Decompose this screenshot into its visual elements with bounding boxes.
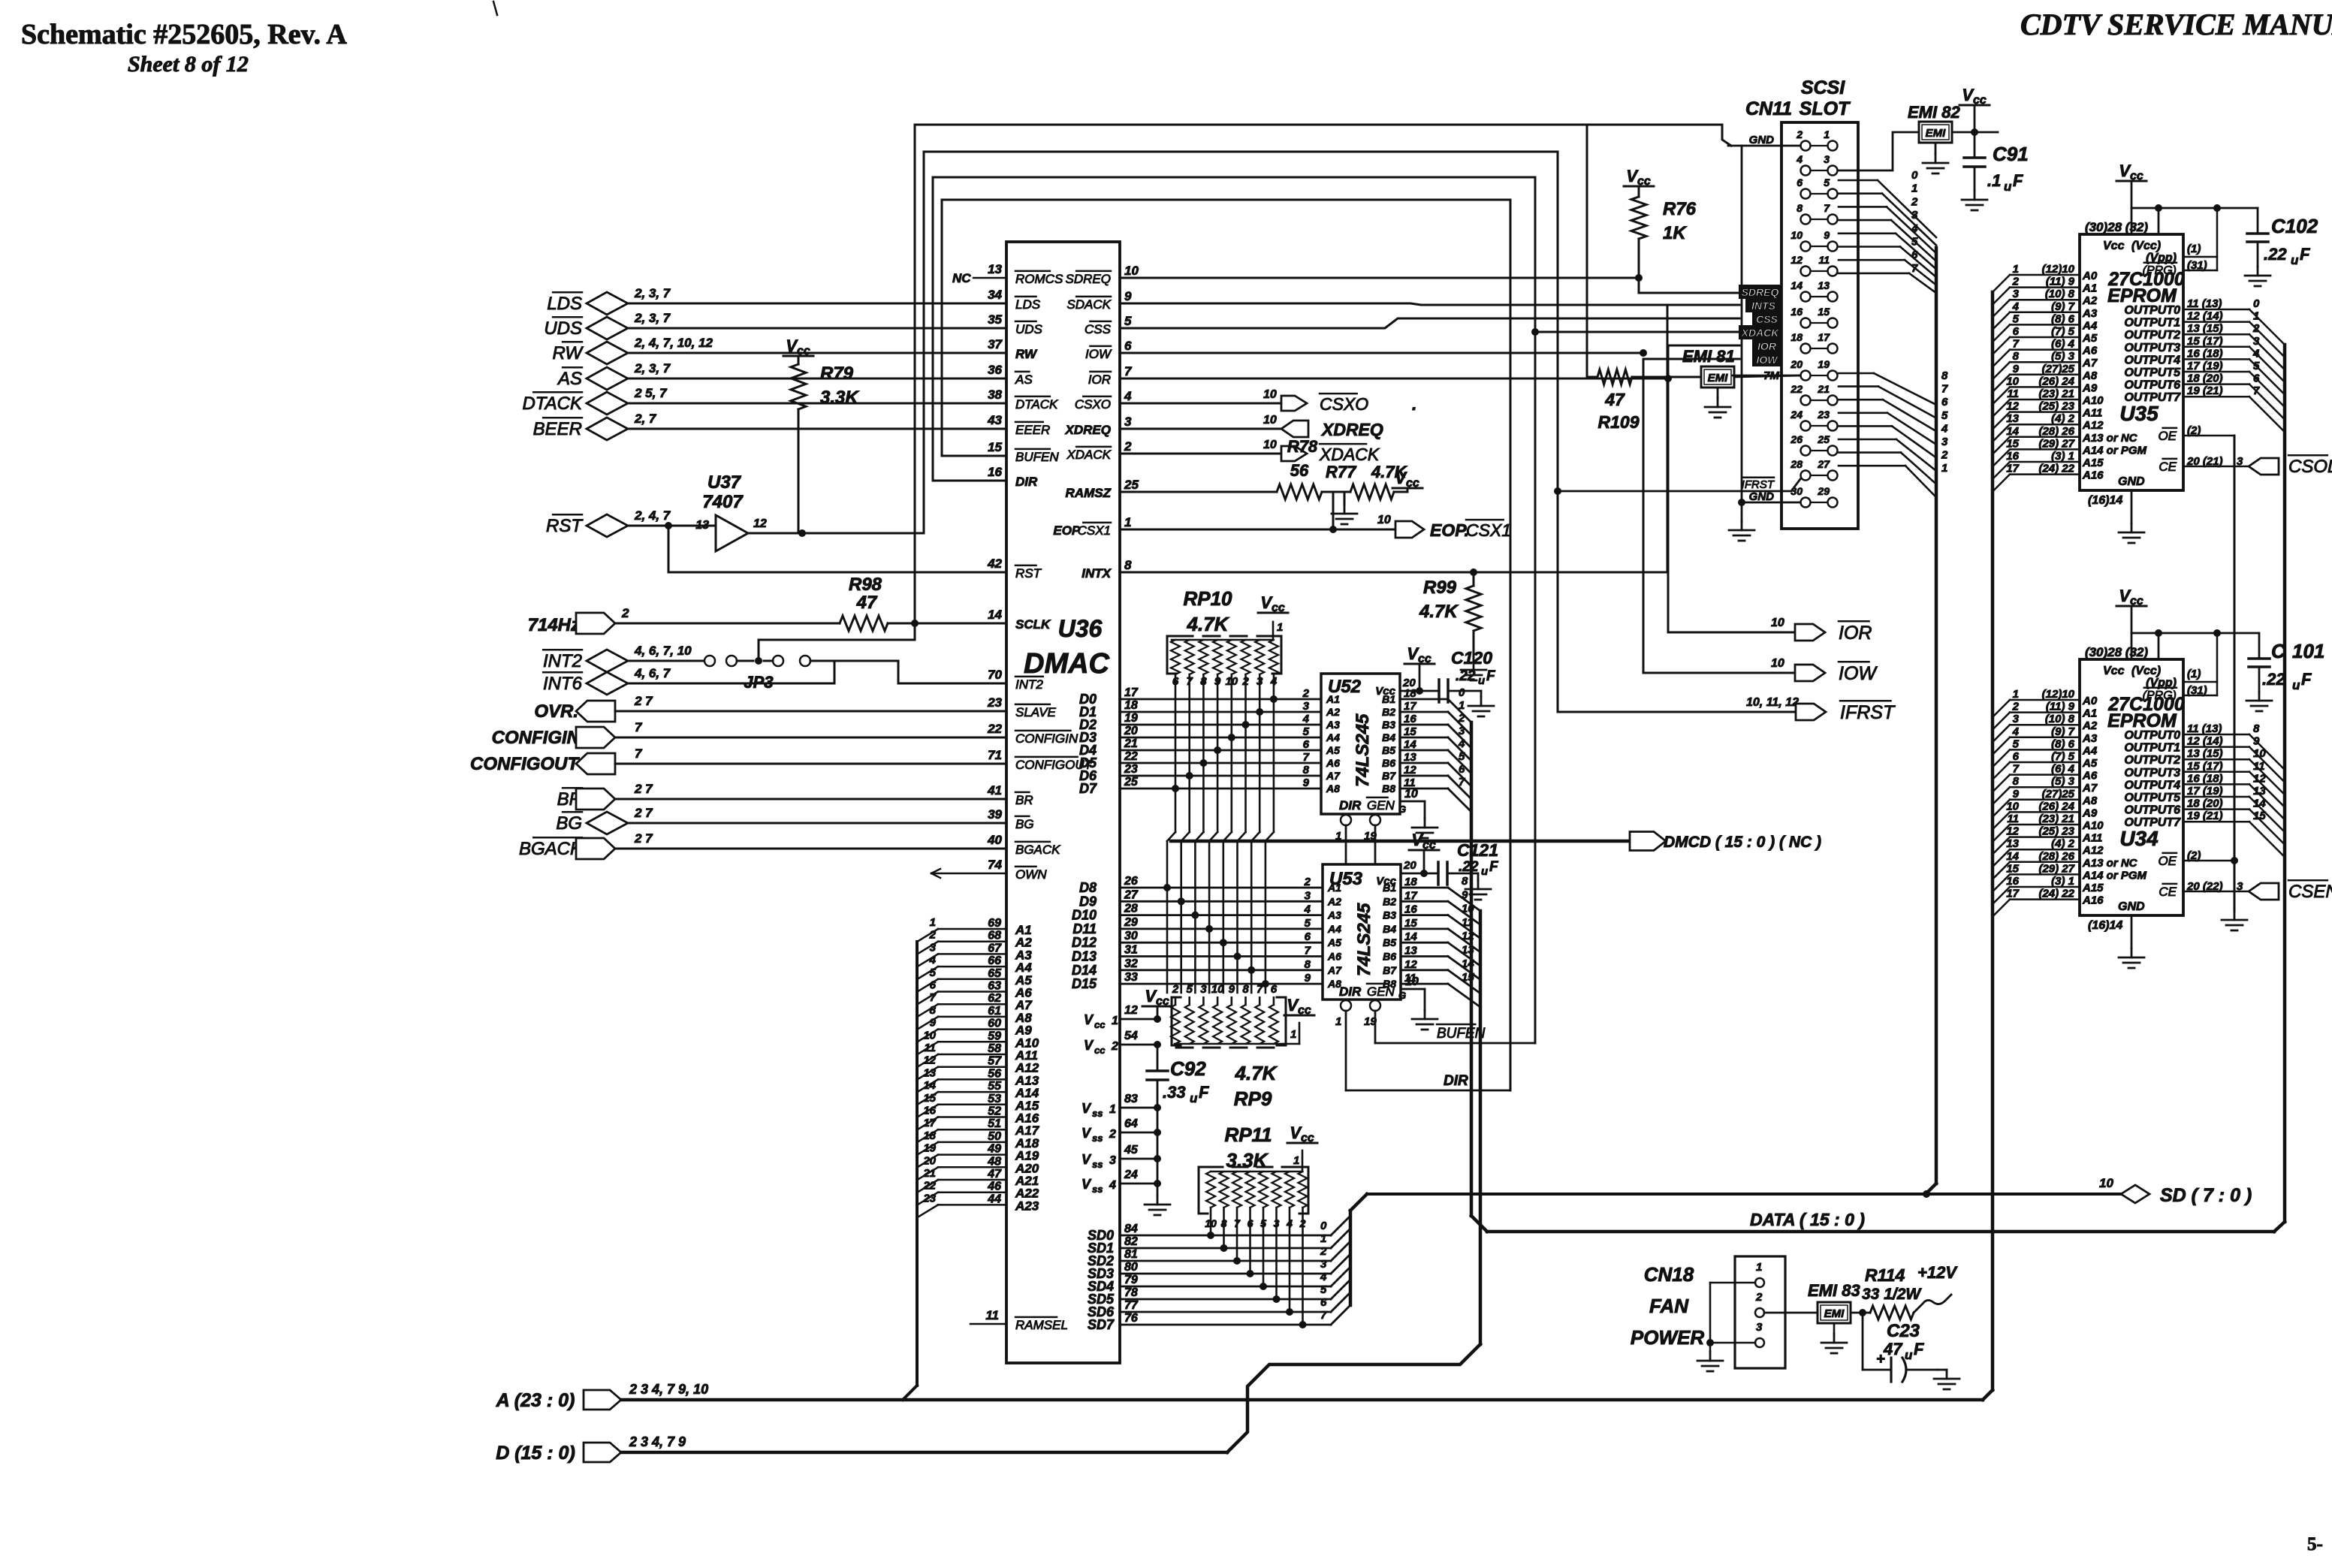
svg-text:14: 14 bbox=[923, 1079, 936, 1092]
EMI 82 ground bbox=[1935, 143, 1937, 154]
svg-text:4, 6, 7: 4, 6, 7 bbox=[634, 666, 671, 680]
svg-text:6: 6 bbox=[2013, 325, 2020, 338]
svg-text:14: 14 bbox=[2006, 850, 2019, 863]
svg-text:6: 6 bbox=[1303, 738, 1310, 751]
svg-text:OUTPUT6: OUTPUT6 bbox=[2124, 804, 2180, 817]
svg-text:14: 14 bbox=[1462, 957, 1474, 970]
svg-text:47: 47 bbox=[1604, 390, 1625, 409]
svg-text:47: 47 bbox=[856, 593, 878, 613]
bus line D(15:0) bbox=[621, 1451, 1227, 1455]
CN11 pins 26/25 bbox=[1801, 446, 1811, 456]
svg-text:8: 8 bbox=[930, 1004, 937, 1017]
svg-text:F: F bbox=[2301, 670, 2312, 689]
svg-text:5: 5 bbox=[1124, 314, 1132, 328]
svg-text:UDS: UDS bbox=[544, 318, 582, 339]
svg-text:4: 4 bbox=[2012, 725, 2020, 738]
svg-text:2: 2 bbox=[1111, 1040, 1118, 1053]
output arrow EOP.CSX1 bbox=[1395, 521, 1424, 538]
CN11 pins 12/11 bbox=[1801, 267, 1811, 276]
svg-text:OUTPUT3: OUTPUT3 bbox=[2124, 767, 2180, 779]
svg-text:2: 2 bbox=[621, 606, 629, 620]
svg-text:A13 or NC: A13 or NC bbox=[2082, 432, 2138, 445]
svg-text:A15: A15 bbox=[2082, 457, 2104, 469]
svg-text:(24) 22: (24) 22 bbox=[2038, 888, 2074, 900]
wire RST to buffer bbox=[628, 525, 716, 527]
address bus vertical to A-line bbox=[916, 942, 919, 1386]
svg-text:9: 9 bbox=[1229, 983, 1235, 996]
svg-text:74LS245: 74LS245 bbox=[1354, 903, 1374, 976]
svg-text:SCSI: SCSI bbox=[1801, 77, 1845, 98]
svg-text:1: 1 bbox=[1320, 1232, 1326, 1245]
svg-text:A16: A16 bbox=[2082, 469, 2104, 482]
svg-text:17: 17 bbox=[2006, 888, 2019, 900]
svg-text:3: 3 bbox=[1911, 209, 1918, 222]
svg-text:3: 3 bbox=[1320, 1258, 1327, 1271]
bus line SD bbox=[1367, 1193, 2121, 1196]
svg-text:10: 10 bbox=[2006, 375, 2019, 387]
svg-text:ROMCS: ROMCS bbox=[1015, 272, 1063, 286]
svg-text:RP9: RP9 bbox=[1234, 1087, 1272, 1110]
CN11 pins 30/29 bbox=[1801, 498, 1811, 508]
svg-text:(24) 22: (24) 22 bbox=[2038, 463, 2074, 475]
svg-text:C91: C91 bbox=[1993, 143, 2029, 165]
svg-text:7: 7 bbox=[635, 720, 643, 734]
svg-text:20: 20 bbox=[1402, 677, 1416, 689]
svg-text:B6: B6 bbox=[1383, 951, 1396, 963]
svg-text:5: 5 bbox=[1941, 409, 1948, 422]
svg-text:76: 76 bbox=[1124, 1312, 1138, 1325]
svg-text:15: 15 bbox=[988, 440, 1002, 454]
svg-text:10: 10 bbox=[1404, 788, 1418, 801]
svg-text:BGACK: BGACK bbox=[1015, 843, 1060, 857]
svg-text:R77: R77 bbox=[1326, 463, 1357, 481]
svg-text:31: 31 bbox=[1124, 944, 1138, 957]
svg-text:.: . bbox=[1412, 394, 1416, 414]
svg-text:1: 1 bbox=[930, 916, 936, 929]
svg-text:A0: A0 bbox=[2082, 695, 2098, 707]
SD bus vertical and corner bbox=[1349, 1211, 1353, 1305]
svg-text:XDREQ: XDREQ bbox=[1320, 420, 1383, 439]
svg-text:2: 2 bbox=[1172, 983, 1179, 996]
svg-text:B5: B5 bbox=[1383, 936, 1396, 948]
svg-text:2: 2 bbox=[2012, 276, 2020, 288]
svg-text:2, 4, 7: 2, 4, 7 bbox=[634, 508, 671, 523]
svg-text:RAMSEL: RAMSEL bbox=[1015, 1318, 1068, 1332]
svg-text:18: 18 bbox=[1124, 699, 1138, 712]
svg-text:A (23 : 0): A (23 : 0) bbox=[496, 1390, 575, 1411]
svg-text:3: 3 bbox=[930, 941, 937, 954]
svg-text:4: 4 bbox=[1911, 222, 1918, 235]
svg-text:22: 22 bbox=[1790, 383, 1803, 395]
wire BGACK to pin 40 bbox=[615, 848, 1006, 850]
resistor R109 47 bbox=[1597, 369, 1632, 384]
svg-text:(5) 3: (5) 3 bbox=[2051, 775, 2075, 788]
svg-text:A8: A8 bbox=[1326, 782, 1340, 795]
wire XDACK label row bbox=[1535, 331, 1739, 333]
bus vertical from U52 to DATA line bbox=[1470, 722, 1474, 1216]
svg-text:DATA ( 15 : 0 ): DATA ( 15 : 0 ) bbox=[1750, 1210, 1865, 1229]
svg-text:BUFEN: BUFEN bbox=[1015, 450, 1059, 464]
svg-text:R79: R79 bbox=[820, 363, 854, 384]
svg-text:67: 67 bbox=[988, 942, 1002, 954]
RP11 legs to SD rows bbox=[1210, 1208, 1212, 1235]
wire BG to pin 39 bbox=[628, 822, 1006, 825]
svg-text:B2: B2 bbox=[1383, 895, 1396, 907]
svg-text:A6: A6 bbox=[1326, 757, 1340, 769]
svg-text:DTACK: DTACK bbox=[522, 394, 583, 414]
svg-text:6: 6 bbox=[1305, 930, 1311, 943]
svg-text:CONFIGIN: CONFIGIN bbox=[1015, 731, 1079, 746]
svg-text:4.7K: 4.7K bbox=[1187, 613, 1230, 635]
svg-text:(10) 8: (10) 8 bbox=[2045, 713, 2075, 725]
svg-text:RW: RW bbox=[1015, 347, 1038, 361]
svg-text:10: 10 bbox=[2253, 747, 2266, 760]
RP11 pin 1 to Vcc bbox=[1302, 1150, 1304, 1171]
svg-text:10: 10 bbox=[1462, 903, 1474, 915]
wire INTX bbox=[1120, 571, 1667, 574]
svg-text:9: 9 bbox=[2013, 788, 2020, 801]
svg-text:20: 20 bbox=[1124, 725, 1138, 737]
svg-text:IOW: IOW bbox=[1757, 354, 1779, 366]
CN11 pins 4/3 bbox=[1801, 166, 1811, 176]
svg-text:A8: A8 bbox=[2082, 369, 2098, 382]
svg-text:4: 4 bbox=[1124, 389, 1132, 403]
CN18 pin 1 bbox=[1755, 1278, 1764, 1287]
svg-text:B5: B5 bbox=[1382, 744, 1395, 756]
svg-text:SLAVE: SLAVE bbox=[1015, 705, 1057, 719]
svg-text:CDTV SERVICE MANUAL: CDTV SERVICE MANUAL bbox=[2020, 8, 2332, 41]
svg-text:V: V bbox=[1084, 1012, 1094, 1027]
svg-text:28: 28 bbox=[1124, 903, 1138, 915]
svg-text:6: 6 bbox=[2253, 372, 2260, 385]
svg-text:8: 8 bbox=[2013, 775, 2020, 788]
bus vertical from U53 to D-route bbox=[1479, 911, 1483, 1344]
svg-text:A14 or PGM: A14 or PGM bbox=[2082, 869, 2147, 882]
CN11 data fan upper bbox=[1839, 179, 1878, 182]
svg-text:9: 9 bbox=[2253, 735, 2260, 748]
svg-text:23: 23 bbox=[1817, 409, 1830, 421]
svg-text:Sheet 8 of 12: Sheet 8 of 12 bbox=[128, 52, 249, 77]
ground below Vss rail bbox=[1157, 1196, 1159, 1205]
svg-text:D8: D8 bbox=[1079, 880, 1097, 895]
svg-text:10: 10 bbox=[2099, 1176, 2113, 1190]
svg-text:OE: OE bbox=[2158, 429, 2177, 443]
ground right of C23 bbox=[1938, 1369, 1947, 1371]
RP9 pin 1 to Vcc bbox=[1284, 1043, 1299, 1045]
svg-text:D9: D9 bbox=[1079, 894, 1097, 909]
capacitor C101 .22uF bbox=[2258, 633, 2261, 659]
svg-text:13: 13 bbox=[1818, 279, 1830, 291]
output arrow IOW bbox=[1795, 665, 1825, 681]
wire JP3 to bus bbox=[758, 640, 760, 661]
bus connector SD[7:0] bbox=[2121, 1185, 2149, 1203]
svg-text:ss: ss bbox=[1092, 1184, 1103, 1195]
wire IOR pin to bus bbox=[1120, 378, 1668, 380]
svg-text:u: u bbox=[2291, 253, 2299, 267]
svg-text:UDS: UDS bbox=[1015, 322, 1043, 336]
CN11 pins 16/15 bbox=[1801, 318, 1811, 328]
svg-text:A5: A5 bbox=[2082, 757, 2098, 770]
svg-text:A2: A2 bbox=[1327, 895, 1341, 907]
svg-text:.33: .33 bbox=[1163, 1083, 1186, 1102]
svg-text:2: 2 bbox=[1941, 449, 1948, 462]
svg-text:3: 3 bbox=[1756, 1321, 1763, 1334]
svg-text:41: 41 bbox=[987, 783, 1002, 798]
wire IOR to arrow bbox=[1667, 345, 1670, 632]
svg-text:(3) 1: (3) 1 bbox=[2051, 875, 2074, 888]
svg-text:45: 45 bbox=[1124, 1144, 1139, 1156]
svg-text:65: 65 bbox=[988, 967, 1002, 980]
svg-text:24: 24 bbox=[1790, 409, 1803, 421]
svg-text:10: 10 bbox=[1405, 975, 1419, 988]
output arrow XDACK bbox=[1281, 446, 1307, 461]
CN11 pins 18/17 bbox=[1801, 344, 1811, 354]
svg-text:79: 79 bbox=[1124, 1274, 1138, 1286]
svg-text:63: 63 bbox=[988, 980, 1001, 993]
svg-text:A6: A6 bbox=[2082, 770, 2098, 782]
svg-text:SDACK: SDACK bbox=[1066, 297, 1111, 312]
svg-text:13: 13 bbox=[2006, 837, 2019, 850]
svg-text:53: 53 bbox=[988, 1093, 1001, 1105]
svg-text:2 3 4, 7 9, 10: 2 3 4, 7 9, 10 bbox=[629, 1382, 708, 1397]
svg-text:9: 9 bbox=[1305, 972, 1311, 985]
svg-text:IFRST: IFRST bbox=[1742, 478, 1775, 491]
svg-text:11 (13): 11 (13) bbox=[2187, 297, 2222, 310]
U34 Vpp/PRG stubs bbox=[2183, 681, 2217, 683]
svg-text:17 (19): 17 (19) bbox=[2187, 785, 2223, 798]
svg-text:13: 13 bbox=[2253, 785, 2266, 798]
svg-text:(5) 3: (5) 3 bbox=[2051, 350, 2075, 363]
svg-text:F: F bbox=[1199, 1083, 1209, 1102]
svg-text:DIR: DIR bbox=[1339, 798, 1362, 813]
CN11 pins 28/27 bbox=[1801, 471, 1811, 481]
svg-text:81: 81 bbox=[1124, 1248, 1138, 1261]
svg-text:13: 13 bbox=[988, 262, 1002, 276]
svg-text:8: 8 bbox=[1941, 369, 1948, 382]
svg-text:7: 7 bbox=[1303, 751, 1310, 764]
svg-text:C92: C92 bbox=[1170, 1057, 1206, 1080]
svg-text:A4: A4 bbox=[2082, 319, 2098, 332]
svg-text:A4: A4 bbox=[1326, 731, 1340, 743]
svg-text:(25) 23: (25) 23 bbox=[2038, 825, 2074, 838]
svg-text:13: 13 bbox=[1462, 944, 1474, 957]
svg-text:14: 14 bbox=[1404, 930, 1417, 943]
svg-text:34: 34 bbox=[988, 288, 1002, 302]
op-amp buffer U37 7407 bbox=[716, 515, 748, 551]
svg-text:5: 5 bbox=[1911, 236, 1918, 249]
svg-text:DIR: DIR bbox=[1339, 985, 1362, 999]
svg-text:(31): (31) bbox=[2187, 684, 2207, 697]
svg-text:CE: CE bbox=[2159, 885, 2177, 899]
svg-text:5: 5 bbox=[1303, 725, 1310, 738]
svg-text:R78: R78 bbox=[1287, 437, 1318, 456]
svg-text:22: 22 bbox=[922, 1180, 936, 1193]
svg-text:Schematic #252605, Rev. A: Schematic #252605, Rev. A bbox=[21, 19, 347, 50]
svg-text:12: 12 bbox=[753, 517, 767, 530]
svg-text:1: 1 bbox=[1911, 182, 1917, 195]
svg-text:4: 4 bbox=[1458, 737, 1465, 750]
svg-text:50: 50 bbox=[988, 1130, 1001, 1143]
svg-text:7: 7 bbox=[635, 746, 643, 761]
svg-text:(23) 21: (23) 21 bbox=[2038, 813, 2074, 825]
svg-text:13: 13 bbox=[1404, 751, 1416, 764]
svg-text:u: u bbox=[2004, 179, 2012, 194]
wire EMI 83 to R114 bbox=[1851, 1312, 1870, 1314]
svg-text:A10: A10 bbox=[2082, 394, 2104, 407]
EPROM U35 27C1000 bbox=[2080, 234, 2183, 490]
RP10 pin 1 to Vcc bbox=[1272, 622, 1275, 640]
capacitor C91 .1uF bbox=[1974, 132, 1976, 158]
svg-text:12: 12 bbox=[2006, 825, 2019, 838]
U35 Vcc rail bbox=[2131, 207, 2258, 210]
svg-text:8: 8 bbox=[2253, 722, 2260, 735]
svg-text:12: 12 bbox=[923, 1054, 936, 1067]
buffer U53 74LS245 bbox=[1323, 864, 1401, 1000]
wire EMI 82 to C91 bbox=[1952, 131, 1998, 134]
svg-text:10: 10 bbox=[2006, 800, 2019, 813]
svg-text:66: 66 bbox=[988, 954, 1001, 967]
svg-text:2: 2 bbox=[1796, 128, 1803, 140]
svg-text:OVR.: OVR. bbox=[534, 701, 578, 722]
svg-text:(PRG): (PRG) bbox=[2143, 264, 2177, 277]
svg-text:19: 19 bbox=[1818, 358, 1830, 370]
svg-text:A4: A4 bbox=[1327, 923, 1341, 935]
svg-text:1: 1 bbox=[1459, 699, 1465, 712]
svg-text:CONFIGIN: CONFIGIN bbox=[492, 728, 581, 748]
svg-text:17: 17 bbox=[923, 1117, 936, 1129]
svg-text:39: 39 bbox=[988, 807, 1002, 822]
svg-text:2 7: 2 7 bbox=[634, 782, 653, 796]
svg-text:A9: A9 bbox=[2082, 807, 2098, 819]
svg-text:6: 6 bbox=[1271, 983, 1278, 996]
svg-text:A23: A23 bbox=[1015, 1199, 1039, 1213]
svg-text:74LS245: 74LS245 bbox=[1353, 713, 1373, 787]
input arrow CSOD bbox=[2249, 458, 2279, 475]
svg-text:EOP.: EOP. bbox=[1430, 520, 1469, 540]
svg-text:IOR: IOR bbox=[1088, 372, 1111, 387]
svg-text:B3: B3 bbox=[1383, 909, 1396, 921]
svg-text:5: 5 bbox=[1320, 1283, 1327, 1296]
wire IFRST to arrow bbox=[1557, 491, 1559, 712]
svg-text:5: 5 bbox=[1187, 983, 1193, 996]
svg-text:OUTPUT2: OUTPUT2 bbox=[2124, 754, 2180, 767]
input arrow XDREQ bbox=[1281, 421, 1308, 437]
svg-text:25: 25 bbox=[1817, 433, 1830, 445]
svg-text:EMI: EMI bbox=[1824, 1307, 1845, 1320]
svg-text:12: 12 bbox=[1124, 1004, 1138, 1017]
svg-text:2: 2 bbox=[1911, 195, 1918, 208]
svg-text:15: 15 bbox=[1404, 725, 1416, 738]
svg-text:15 (17): 15 (17) bbox=[2187, 335, 2223, 348]
wire SDREQ to SCSI bbox=[1120, 277, 1639, 279]
wire RST to pin 42 bbox=[668, 526, 670, 572]
svg-text:Vcc: Vcc bbox=[2103, 665, 2125, 677]
svg-text:14: 14 bbox=[2253, 798, 2266, 810]
svg-text:C120: C120 bbox=[1451, 648, 1492, 668]
svg-text:64: 64 bbox=[1124, 1117, 1138, 1130]
svg-text:D15: D15 bbox=[1072, 976, 1097, 991]
wire LDS to U36 bbox=[628, 303, 1006, 305]
svg-text:6: 6 bbox=[1320, 1296, 1327, 1309]
svg-text:2: 2 bbox=[2012, 701, 2020, 713]
svg-text:F: F bbox=[1489, 859, 1499, 875]
svg-text:DMCD ( 15 : 0 ) ( NC ): DMCD ( 15 : 0 ) ( NC ) bbox=[1664, 834, 1821, 851]
svg-text:CSX1: CSX1 bbox=[1078, 523, 1111, 538]
svg-text:77: 77 bbox=[1124, 1299, 1139, 1312]
svg-text:2: 2 bbox=[1304, 876, 1311, 888]
svg-text:B3: B3 bbox=[1382, 719, 1395, 731]
ground below C101 bbox=[2258, 692, 2261, 701]
svg-text:GND: GND bbox=[2118, 475, 2145, 488]
svg-text:(16)14: (16)14 bbox=[2088, 494, 2122, 507]
svg-text:2 7: 2 7 bbox=[634, 831, 653, 846]
svg-text:69: 69 bbox=[988, 917, 1001, 930]
svg-text:30: 30 bbox=[1124, 930, 1138, 942]
svg-text:G: G bbox=[1398, 990, 1406, 1001]
svg-text:68: 68 bbox=[988, 930, 1001, 942]
svg-text:33 1/2W: 33 1/2W bbox=[1862, 1286, 1922, 1303]
svg-text:20: 20 bbox=[1403, 859, 1416, 872]
wire R98 to SCLK pin 14 bbox=[888, 623, 1006, 625]
svg-text:GND: GND bbox=[2118, 900, 2145, 913]
ground below OE bus bbox=[2234, 911, 2236, 920]
svg-text:OUTPUT4: OUTPUT4 bbox=[2124, 779, 2180, 792]
wires U52 DIR/GEN down to U53 bbox=[1345, 825, 1347, 864]
svg-text:1: 1 bbox=[1290, 1028, 1296, 1041]
svg-text:21: 21 bbox=[922, 1167, 936, 1180]
svg-text:17: 17 bbox=[2006, 463, 2019, 475]
svg-text:25: 25 bbox=[1124, 776, 1139, 789]
svg-text:1: 1 bbox=[1124, 515, 1131, 529]
svg-text:14: 14 bbox=[2006, 425, 2019, 438]
wire CSS to SCSI bbox=[1120, 318, 1739, 328]
svg-text:.22: .22 bbox=[1456, 668, 1476, 684]
svg-text:GEN: GEN bbox=[1367, 798, 1395, 813]
svg-text:OUTPUT2: OUTPUT2 bbox=[2124, 329, 2180, 342]
svg-text:84: 84 bbox=[1124, 1223, 1138, 1235]
svg-text:A16: A16 bbox=[2082, 894, 2104, 907]
svg-text:59: 59 bbox=[988, 1030, 1001, 1042]
svg-text:26: 26 bbox=[1124, 875, 1138, 888]
svg-text:IOR: IOR bbox=[1757, 340, 1777, 352]
bus DMCD line bbox=[1171, 840, 1630, 843]
svg-text:B4: B4 bbox=[1382, 731, 1395, 743]
svg-text:36: 36 bbox=[988, 363, 1002, 377]
wire JP3 to INT2 pin 70 bbox=[810, 660, 898, 662]
svg-text:(26) 24: (26) 24 bbox=[2038, 375, 2074, 387]
svg-text:1: 1 bbox=[2013, 688, 2019, 701]
wire OE bus U35 to U34 bbox=[2234, 436, 2236, 911]
CN18 pin 3 bbox=[1755, 1338, 1764, 1347]
svg-text:cc: cc bbox=[1094, 1019, 1106, 1030]
svg-text:7407: 7407 bbox=[702, 492, 744, 512]
svg-text:EMI 81: EMI 81 bbox=[1682, 347, 1735, 366]
svg-text:4: 4 bbox=[2012, 300, 2020, 313]
wire BUFEN from U53 GEN bbox=[1374, 1011, 1377, 1043]
svg-text:RW: RW bbox=[552, 343, 584, 363]
svg-text:714Hz: 714Hz bbox=[528, 615, 580, 635]
svg-text:(11) 9: (11) 9 bbox=[2046, 701, 2075, 713]
svg-text:11 (13): 11 (13) bbox=[2187, 722, 2222, 735]
svg-text:23: 23 bbox=[922, 1192, 936, 1205]
svg-text:SD7: SD7 bbox=[1088, 1317, 1115, 1332]
wire XDREQ to arrow bbox=[1120, 428, 1281, 430]
pull-up legs RP10 to D rows and DMCD bus bbox=[1175, 674, 1177, 832]
svg-text:0: 0 bbox=[1911, 169, 1918, 182]
svg-text:27: 27 bbox=[1817, 458, 1830, 470]
svg-text:CSXO: CSXO bbox=[1075, 397, 1111, 412]
svg-text:44: 44 bbox=[987, 1193, 1001, 1205]
